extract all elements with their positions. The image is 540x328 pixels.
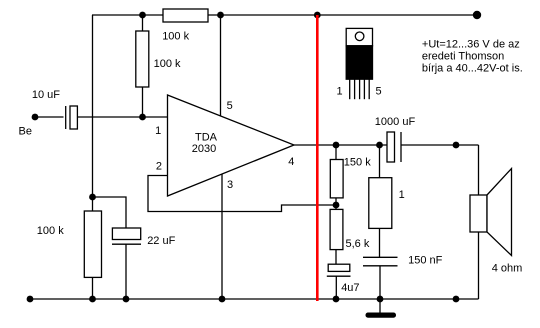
op-amp U1 TDA2030 triangle [168, 95, 295, 196]
node dot bottom left end [27, 296, 34, 303]
svg-text:5: 5 [376, 85, 382, 97]
wire input to C1 [35, 116, 64, 118]
svg-text:22 uF: 22 uF [147, 235, 175, 247]
wire C1 to pin 1 [77, 116, 167, 118]
red marker line [316, 15, 319, 301]
svg-text:Be: Be [19, 125, 32, 137]
TO-220 package drawing [346, 28, 372, 99]
speaker 4 ohm [470, 169, 512, 300]
wire bottom ground rail [30, 298, 479, 300]
svg-text:5: 5 [227, 100, 233, 112]
svg-text:eredeti Thomson: eredeti Thomson [422, 51, 504, 63]
svg-text:100 k: 100 k [154, 58, 181, 70]
svg-text:100 k: 100 k [37, 225, 64, 237]
node junction pin1 / bias divider [139, 114, 146, 121]
resistor 5.6k feedback [330, 205, 343, 264]
resistor 150k feedback [330, 145, 343, 205]
node junction top of R2 [139, 12, 146, 19]
svg-text:bírja a 40...42V-ot is.: bírja a 40...42V-ot is. [422, 62, 523, 74]
svg-text:1: 1 [155, 125, 161, 137]
node junction 150nF/ground bottom [377, 296, 384, 303]
node junction left rail / 100k / 22uF [89, 194, 96, 201]
node junction pin5 on top rail [217, 12, 224, 19]
svg-text:5,6 k: 5,6 k [346, 238, 370, 250]
svg-text:1: 1 [399, 189, 405, 201]
capacitor 4u7 feedback [327, 264, 351, 299]
svg-text:+Ut=12...36 V de az: +Ut=12...36 V de az [422, 39, 520, 51]
node junction speaker bottom [453, 296, 460, 303]
resistor 100k vertical (bias upper) [136, 15, 149, 117]
ground symbol [366, 299, 397, 318]
resistor 100k horizontal (feedback top) [163, 9, 208, 22]
node junction 22uF bottom [123, 296, 130, 303]
svg-text:1000 uF: 1000 uF [375, 116, 416, 128]
svg-text:2: 2 [156, 161, 162, 173]
capacitor 1000uF output [387, 132, 479, 162]
svg-text:150 nF: 150 nF [408, 255, 443, 267]
svg-text:TDA: TDA [195, 131, 218, 143]
wire output pin 4 [294, 144, 387, 146]
capacitor 22uF bias decoupling [93, 197, 142, 299]
node junction 100k bottom [89, 296, 96, 303]
svg-text:150 k: 150 k [344, 156, 371, 168]
node junction speaker top [453, 142, 460, 149]
svg-text:1: 1 [337, 85, 343, 97]
svg-text:100 k: 100 k [162, 31, 189, 43]
svg-text:3: 3 [227, 179, 233, 191]
node junction red line on top rail [314, 12, 321, 19]
svg-text:2030: 2030 [192, 143, 216, 155]
resistor 100k bias lower [84, 197, 101, 299]
node +Ut terminal end of top rail [473, 11, 481, 19]
capacitor 10uF input [66, 106, 78, 129]
capacitor 150nF zobel [363, 257, 398, 299]
node junction output/1ohm [376, 142, 383, 149]
svg-text:4 ohm: 4 ohm [492, 263, 523, 275]
svg-text:10 uF: 10 uF [32, 89, 60, 101]
node junction 4u7 bottom [333, 296, 340, 303]
svg-text:4: 4 [288, 156, 294, 168]
node junction feedback 150k/5.6k [333, 202, 340, 209]
wire left vertical rail [92, 15, 94, 197]
wire pin 5 to top rail [220, 15, 222, 116]
node junction pin3 bottom [219, 296, 226, 303]
wire pin 3 to bottom rail [221, 174, 223, 299]
wire top supply rail [92, 14, 477, 16]
node Be input terminal [32, 114, 39, 121]
wire down to speaker [478, 145, 480, 195]
node junction output/150k [333, 142, 340, 149]
wire pin 2 feedback path [148, 176, 336, 212]
resistor 1 ohm zobel [369, 145, 392, 257]
svg-text:4u7: 4u7 [341, 282, 359, 294]
